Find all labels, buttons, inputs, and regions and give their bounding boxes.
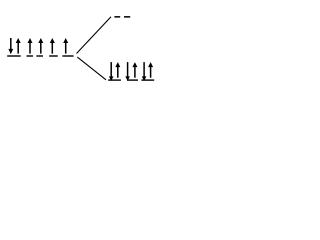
upper diagonal line to eg level bbox=[77, 17, 112, 54]
orbital splitting diagram bbox=[0, 0, 164, 94]
t2g orbital 1 down electron bbox=[109, 62, 114, 81]
t2g orbital 2 down electron bbox=[125, 62, 130, 81]
orbital 5 underline bbox=[62, 55, 73, 56]
t2g orbital 2 underline bbox=[127, 79, 138, 80]
orbital 4 up electron bbox=[50, 38, 55, 54]
t2g orbital 3 up electron bbox=[148, 62, 153, 78]
orbital 2 underline bbox=[27, 55, 34, 56]
t2g orbital 1 underline bbox=[108, 79, 121, 80]
orbital 3 underline bbox=[36, 55, 43, 56]
orbital 4 underline bbox=[49, 55, 58, 56]
lower diagonal line to t2g level bbox=[77, 57, 106, 80]
t2g orbital 3 underline bbox=[141, 79, 154, 80]
orbital 5 up electron bbox=[63, 38, 68, 54]
orbital 1 underline (paired, free ion level) bbox=[7, 55, 21, 56]
t2g orbital 3 down electron bbox=[142, 62, 147, 81]
orbital 1 down electron bbox=[8, 38, 13, 54]
eg empty orbital dash 1 bbox=[114, 16, 120, 18]
t2g orbital 2 up electron bbox=[132, 62, 137, 78]
orbital 3 up electron bbox=[38, 38, 43, 54]
eg empty orbital dash 2 bbox=[124, 16, 130, 18]
orbital 1 up electron bbox=[16, 38, 21, 54]
t2g orbital 1 up electron bbox=[115, 62, 120, 78]
orbital 2 up electron bbox=[28, 38, 33, 54]
